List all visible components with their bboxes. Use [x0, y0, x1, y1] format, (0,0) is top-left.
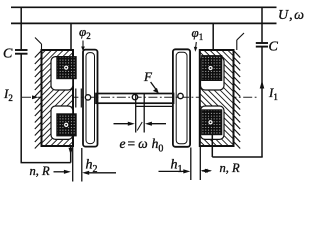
svg-text:F: F — [143, 69, 153, 84]
coil R upper (dotted cross-section) — [202, 56, 222, 81]
wire bus A (top) — [11, 6, 277, 8]
pivot circle mid rod — [132, 94, 137, 99]
wire right coil riser — [211, 135, 213, 157]
wire right branch vertical — [261, 7, 263, 42]
armature plate right (outer) — [173, 49, 190, 147]
core right lower window — [201, 106, 225, 139]
double arrow h1-to-riser — [202, 170, 211, 172]
centerline (dash-dot axis) — [22, 96, 257, 98]
wire right bottom horizontal — [212, 156, 262, 158]
wire bus B — [11, 22, 277, 24]
rod (connecting bar) — [96, 94, 174, 104]
arrow e right — [149, 123, 167, 125]
wall / fixed frame left — [35, 38, 42, 149]
capacitor C right — [256, 42, 268, 44]
armature plate left (outer) — [83, 50, 98, 147]
dimension h2 extension lines — [72, 147, 74, 182]
svg-text:U,ω: U,ω — [278, 8, 304, 23]
arrow n,R left — [54, 171, 68, 173]
arrow h1 (from left) — [159, 170, 187, 172]
current arrow I1 (up) on right wire — [260, 81, 265, 89]
pivot circle on right plate — [178, 93, 183, 98]
coil L lower (dotted cross-section) — [57, 114, 76, 136]
wall / fixed frame right — [234, 33, 245, 149]
capacitor C left — [15, 49, 28, 51]
wire left coil top feed — [70, 23, 72, 51]
wire left coil riser — [70, 136, 72, 163]
wire right coil top feed — [212, 23, 214, 51]
svg-text:n, R: n, R — [220, 161, 241, 175]
coil L upper (dotted cross-section) — [57, 57, 76, 79]
dimension h1 extension lines — [190, 148, 192, 181]
slash tick — [137, 122, 142, 131]
svg-text:C: C — [3, 47, 13, 62]
coil R lower (dotted cross-section) — [202, 110, 222, 135]
flux arrow phi1 — [195, 42, 198, 49]
arrow h2 (from right) — [86, 172, 116, 174]
wire left branch vertical — [20, 7, 22, 49]
centerline arrow at left wall — [32, 95, 39, 99]
force arrow F — [151, 82, 157, 91]
rod under-line right half — [136, 105, 173, 107]
core right (hatched block) — [200, 50, 234, 146]
wire left bottom horizontal — [21, 162, 71, 164]
flux arrow phi2 — [82, 41, 84, 49]
displacement marks below mid pivot — [135, 94, 137, 133]
core right upper window — [201, 57, 225, 90]
svg-text:C: C — [269, 40, 279, 55]
core left (hatched block) — [42, 50, 77, 146]
pivot circle on left plate — [85, 95, 90, 100]
pole face tip lines left — [75, 89, 77, 108]
armature plate left (inner) — [86, 53, 95, 144]
core left upper window — [51, 57, 73, 90]
armature plate right (inner) — [176, 52, 187, 144]
arrow e left — [114, 123, 132, 125]
svg-text:n, R: n, R — [30, 164, 51, 178]
core left lower window — [51, 106, 73, 139]
